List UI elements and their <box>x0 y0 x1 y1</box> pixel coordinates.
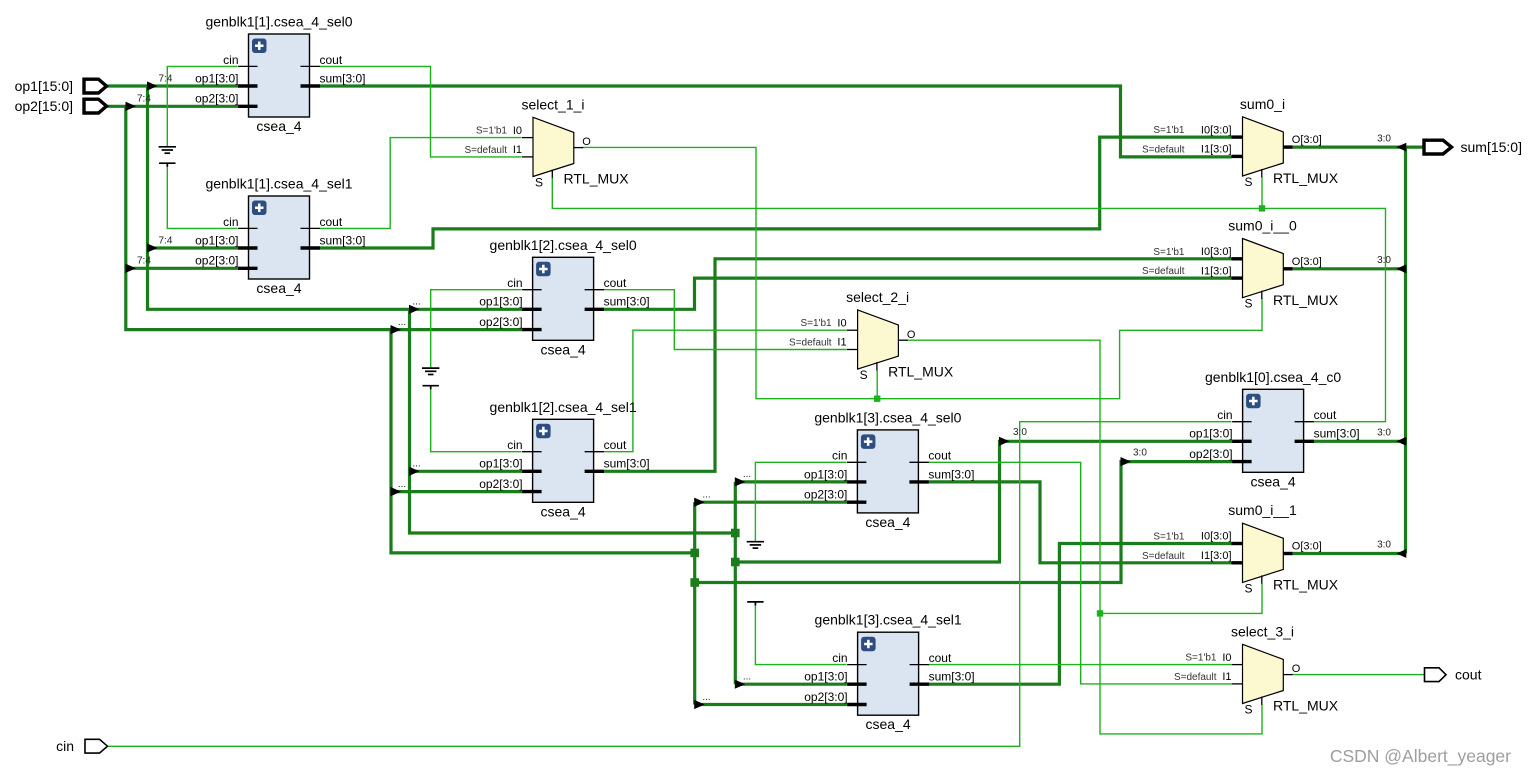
wire genblk1[0].csea_4_c0 sum to sum bus <box>1314 440 1405 443</box>
wire genblk1[1].csea_4_sel0 cout to select_1_i I1 <box>320 66 522 156</box>
branch arrow op2 to sel0[2] <box>391 325 402 334</box>
svg-text:7:4: 7:4 <box>137 94 151 105</box>
svg-text:op1[3:0]: op1[3:0] <box>195 71 238 85</box>
mux select_1_i <box>464 96 629 189</box>
svg-text:cin: cin <box>507 438 522 452</box>
svg-text:cin: cin <box>1217 408 1232 422</box>
adder block genblk1[1].csea_4_sel1 <box>195 176 365 297</box>
svg-text:O[3:0]: O[3:0] <box>1292 541 1322 553</box>
adder block genblk1[3].csea_4_sel0 <box>804 409 974 530</box>
branch arrow op1 to sel0[2] <box>409 305 420 314</box>
branch arrow op2 to sel0[3] <box>694 498 705 507</box>
wire genblk1[3].csea_4_sel1 sum to sum0_i__1 I0 <box>929 544 1232 685</box>
mux sum0_i__1 <box>1142 502 1339 595</box>
adder block genblk1[1].csea_4_sel0 <box>195 14 365 135</box>
branch arrow op2 to sel1[1] with label 7:4 <box>126 264 137 273</box>
svg-text:RTL_MUX: RTL_MUX <box>1273 292 1339 308</box>
svg-text:genblk1[1].csea_4_sel1: genblk1[1].csea_4_sel1 <box>205 176 352 192</box>
svg-text:op1[3:0]: op1[3:0] <box>804 467 847 481</box>
adder block genblk1[2].csea_4_sel0 <box>479 237 649 357</box>
wire genblk1[2].csea_4_sel1 sum to sum0_i__0 I0 <box>604 259 1231 472</box>
svg-text:cout: cout <box>604 276 627 290</box>
svg-text:S=1'b1: S=1'b1 <box>1153 247 1185 258</box>
svg-text:S=1'b1: S=1'b1 <box>1153 125 1185 136</box>
wire genblk1[1].csea_4_sel1 sum to sum0_i I0 <box>320 137 1232 248</box>
branch arrow op1 to sel0[1] with label 7:4 <box>147 81 158 90</box>
wire genblk1[3].csea_4_sel0 cin to ground <box>755 462 846 541</box>
svg-text:op2[3:0]: op2[3:0] <box>804 488 847 502</box>
svg-text:csea_4: csea_4 <box>1251 473 1296 489</box>
wire op2 vertical x=694.7 (blocks genblk1[3]) <box>693 502 696 704</box>
svg-text:select_1_i: select_1_i <box>521 96 584 112</box>
svg-text:RTL_MUX: RTL_MUX <box>1273 698 1339 714</box>
svg-text:RTL_MUX: RTL_MUX <box>888 363 954 379</box>
svg-text:...: ... <box>743 469 751 480</box>
wire op2 trunk x=391 down to y=552.9 <box>391 330 695 553</box>
wire op2 branch to genblk1[3].csea_4_sel0 <box>695 501 847 504</box>
svg-text:csea_4: csea_4 <box>541 341 586 357</box>
svg-text:op2[3:0]: op2[3:0] <box>804 690 847 704</box>
branch arrow op1 to sel1[2] <box>409 467 420 476</box>
svg-text:S: S <box>1245 175 1253 189</box>
svg-text:S=1'b1: S=1'b1 <box>476 126 508 137</box>
svg-text:op1[3:0]: op1[3:0] <box>479 295 522 309</box>
ground symbol G1 <box>159 147 176 153</box>
svg-text:csea_4: csea_4 <box>866 716 911 732</box>
svg-text:CSDN @Albert_yeager: CSDN @Albert_yeager <box>1330 746 1511 767</box>
wire sum0_i O to sum[15:0] port <box>1293 146 1424 149</box>
wire genblk1[3].csea_4_sel1 cout to select_3_i I0 <box>929 664 1231 666</box>
wire op2 branch to genblk1[1].csea_4_sel1 <box>126 267 238 270</box>
svg-text:sum[15:0]: sum[15:0] <box>1461 139 1522 155</box>
svg-text:3:0: 3:0 <box>1377 428 1391 439</box>
svg-text:S=1'b1: S=1'b1 <box>800 318 832 329</box>
svg-text:O: O <box>582 136 591 148</box>
mux select_2_i <box>789 289 954 382</box>
merge arrow sum0_i__1 O with label 3:0 <box>1396 549 1406 558</box>
svg-text:cin: cin <box>56 738 74 754</box>
svg-text:sum[3:0]: sum[3:0] <box>929 670 975 684</box>
svg-text:...: ... <box>398 479 406 490</box>
wire op2 branch to genblk1[2].csea_4_sel1 <box>391 490 522 493</box>
branch arrow op1 to c0 with label 3:0 <box>999 437 1010 446</box>
svg-text:S=default: S=default <box>464 145 507 156</box>
svg-text:genblk1[3].csea_4_sel0: genblk1[3].csea_4_sel0 <box>814 409 961 425</box>
output port cout <box>1425 667 1482 683</box>
wire genblk1[3].csea_4_sel0 cout to select_3_i I1 <box>929 462 1231 684</box>
junction op1 bus at x=735.3 y=562 <box>731 558 740 567</box>
svg-text:op1[3:0]: op1[3:0] <box>804 670 847 684</box>
wire op1 trunk x=409.5 down to y=533 <box>410 309 736 533</box>
wire op1 branch to genblk1[2].csea_4_sel1 <box>410 470 523 473</box>
svg-text:sum[3:0]: sum[3:0] <box>1314 427 1360 441</box>
ground symbol G3 <box>747 542 764 548</box>
svg-text:...: ... <box>743 672 751 683</box>
wire power to genblk1[1].csea_4_sel1 cin <box>167 164 237 229</box>
svg-text:I0[3:0]: I0[3:0] <box>1201 246 1232 258</box>
svg-text:I1: I1 <box>513 144 522 156</box>
svg-text:...: ... <box>412 459 420 470</box>
svg-text:...: ... <box>702 692 710 703</box>
svg-text:S=default: S=default <box>1142 551 1185 562</box>
svg-text:sum[3:0]: sum[3:0] <box>320 233 366 247</box>
svg-text:S=default: S=default <box>1142 144 1185 155</box>
svg-text:7:4: 7:4 <box>137 256 151 267</box>
wire power to genblk1[3].csea_4_sel1 cin <box>755 603 846 665</box>
svg-text:op1[3:0]: op1[3:0] <box>195 233 238 247</box>
junction op2 bus at x=694.7 y=582.5 <box>690 578 699 587</box>
adder block genblk1[3].csea_4_sel1 <box>804 612 974 733</box>
svg-text:O[3:0]: O[3:0] <box>1292 256 1322 268</box>
wire genblk1[3].csea_4_sel0 sum to sum0_i__1 I1 <box>929 482 1232 563</box>
svg-text:op2[3:0]: op2[3:0] <box>1189 447 1232 461</box>
input port op1[15:0] <box>15 78 107 94</box>
svg-text:O[3:0]: O[3:0] <box>1292 134 1322 146</box>
svg-text:cin: cin <box>223 215 238 229</box>
wire op2 branch to genblk1[3].csea_4_sel1 <box>695 703 847 706</box>
output port sum[15:0] <box>1424 139 1522 155</box>
svg-text:O: O <box>1292 663 1301 675</box>
svg-text:op2[15:0]: op2[15:0] <box>15 98 73 114</box>
wire genblk1[2].csea_4_sel0 cout to select_2_i I1 <box>604 290 846 350</box>
svg-text:S: S <box>1245 581 1253 595</box>
svg-text:cout: cout <box>320 53 343 67</box>
merge arrow sum0_i O with label 3:0 <box>1396 143 1406 152</box>
svg-text:csea_4: csea_4 <box>256 118 301 134</box>
svg-text:op2[3:0]: op2[3:0] <box>195 92 238 106</box>
svg-text:RTL_MUX: RTL_MUX <box>1273 170 1339 186</box>
wire op1[15:0] port to genblk1[1].csea_4_sel0 op1 <box>107 84 239 87</box>
svg-text:sum[3:0]: sum[3:0] <box>928 467 974 481</box>
svg-text:7:4: 7:4 <box>159 235 173 246</box>
svg-text:csea_4: csea_4 <box>865 514 910 530</box>
svg-text:genblk1[1].csea_4_sel0: genblk1[1].csea_4_sel0 <box>205 14 352 30</box>
svg-text:cin: cin <box>507 276 522 290</box>
branch arrow op2 to c0 with label 3:0 <box>1121 457 1132 466</box>
junction op1 bus at x=735.3 y=533 <box>731 529 740 538</box>
svg-text:3:0: 3:0 <box>1377 540 1391 551</box>
wire net carry0: genblk1[0].csea_4_c0 cout to select_1_i S and sum0_i S <box>552 177 1385 422</box>
wire branch carry2 to sum0_i__1 S <box>1100 583 1262 613</box>
svg-text:sum0_i__0: sum0_i__0 <box>1228 218 1297 234</box>
svg-text:op2[3:0]: op2[3:0] <box>479 315 522 329</box>
wire sum0_i__1 O to sum bus <box>1293 552 1406 555</box>
svg-text:select_2_i: select_2_i <box>846 289 909 305</box>
input port cin <box>56 738 107 754</box>
svg-text:sum0_i: sum0_i <box>1240 96 1285 112</box>
svg-text:S: S <box>1245 703 1253 717</box>
svg-text:genblk1[2].csea_4_sel1: genblk1[2].csea_4_sel1 <box>490 399 637 415</box>
svg-text:op1[3:0]: op1[3:0] <box>1189 427 1232 441</box>
junction carry2 branch <box>1097 610 1103 616</box>
wire genblk1[2].csea_4_sel0 cin to ground <box>431 290 522 368</box>
svg-text:sum0_i__1: sum0_i__1 <box>1228 502 1297 518</box>
svg-text:...: ... <box>398 317 406 328</box>
svg-text:cout: cout <box>1455 667 1482 683</box>
wire genblk1[1].csea_4_sel1 cout to select_1_i I0 <box>320 138 522 229</box>
merge arrow sum0_i__0 O with label 3:0 <box>1396 264 1406 273</box>
svg-text:S=1'b1: S=1'b1 <box>1153 532 1185 543</box>
mux sum0_i <box>1142 96 1339 189</box>
branch arrow op1 to sel1[3] <box>735 680 746 689</box>
wire op2 branch to genblk1[0].csea_4_c0 <box>695 462 1232 583</box>
svg-text:S=default: S=default <box>789 338 832 349</box>
branch arrow op2 to sel0[1] with label 7:4 <box>126 102 137 111</box>
svg-text:3:0: 3:0 <box>1377 133 1391 144</box>
junction carry0 at sum0_i S <box>1259 205 1265 211</box>
branch arrow op1 to sel0[3] <box>735 477 746 486</box>
svg-text:cout: cout <box>320 215 343 229</box>
merge arrow c0 sum with label 3:0 <box>1396 437 1406 446</box>
wire genblk1[1].csea_4_sel0 sum to sum0_i I1 <box>320 86 1232 157</box>
svg-text:S: S <box>860 368 868 382</box>
svg-text:S: S <box>535 176 543 190</box>
branch arrow op2 to sel1[2] <box>391 487 402 496</box>
wire op1 branch to genblk1[0].csea_4_c0 <box>735 441 1232 562</box>
svg-text:I0: I0 <box>837 317 846 329</box>
svg-text:cin: cin <box>832 651 847 665</box>
svg-text:...: ... <box>412 297 420 308</box>
svg-text:S=default: S=default <box>1142 266 1185 277</box>
power symbol P3 <box>747 602 763 606</box>
svg-text:I0[3:0]: I0[3:0] <box>1201 124 1232 136</box>
wire select_2_i S leg <box>876 370 878 399</box>
svg-text:cout: cout <box>929 651 952 665</box>
svg-text:cout: cout <box>604 438 627 452</box>
power symbol P1 <box>159 163 175 167</box>
wire sum0_i__0 O to sum bus <box>1293 267 1406 270</box>
svg-text:I1: I1 <box>837 337 846 349</box>
power symbol P2 <box>423 386 439 390</box>
wire power to genblk1[2].csea_4_sel1 cin <box>431 386 522 451</box>
svg-text:op1[3:0]: op1[3:0] <box>479 457 522 471</box>
svg-text:I1[3:0]: I1[3:0] <box>1201 265 1232 277</box>
wire net carry1: select_1_i O to select_2_i S and sum0_i__0 S <box>583 147 1263 398</box>
svg-text:I0[3:0]: I0[3:0] <box>1201 531 1232 543</box>
adder block genblk1[0].csea_4_c0 <box>1189 369 1359 490</box>
svg-text:3:0: 3:0 <box>1013 427 1027 438</box>
wire op2[15:0] port to genblk1[1].csea_4_sel0 op2 <box>107 105 239 108</box>
svg-text:op2[3:0]: op2[3:0] <box>195 254 238 268</box>
ground symbol G2 <box>422 368 439 374</box>
svg-text:O: O <box>907 329 916 341</box>
wire sum[15:0] bus vertical x=1405.5 <box>1404 147 1407 553</box>
svg-text:op1[15:0]: op1[15:0] <box>15 78 73 94</box>
svg-text:select_3_i: select_3_i <box>1231 623 1294 639</box>
svg-text:sum[3:0]: sum[3:0] <box>320 71 366 85</box>
svg-text:cout: cout <box>1314 408 1337 422</box>
svg-text:S: S <box>1245 297 1253 311</box>
junction carry1 at select_2_i S <box>874 396 880 402</box>
svg-text:S=1'b1: S=1'b1 <box>1185 653 1217 664</box>
wire genblk1[2].csea_4_sel1 cout to select_2_i I0 <box>604 330 846 452</box>
branch arrow op2 to sel1[3] <box>694 700 705 709</box>
svg-text:I1[3:0]: I1[3:0] <box>1201 144 1232 156</box>
svg-text:RTL_MUX: RTL_MUX <box>564 171 630 187</box>
svg-text:genblk1[2].csea_4_sel0: genblk1[2].csea_4_sel0 <box>490 237 637 253</box>
svg-text:csea_4: csea_4 <box>541 503 586 519</box>
wire select_3_i O to cout port <box>1293 674 1425 676</box>
wire op2 bus vertical trunk x=125.8 <box>126 106 522 329</box>
mux sum0_i__0 <box>1142 218 1339 311</box>
svg-text:I0: I0 <box>1222 652 1231 664</box>
wire op1 branch to genblk1[3].csea_4_sel1 <box>735 683 847 686</box>
svg-text:cin: cin <box>223 53 238 67</box>
adder block genblk1[2].csea_4_sel1 <box>479 399 649 520</box>
svg-text:RTL_MUX: RTL_MUX <box>1273 577 1339 593</box>
wire op1 branch to genblk1[3].csea_4_sel0 <box>735 480 847 483</box>
svg-text:sum[3:0]: sum[3:0] <box>604 295 650 309</box>
svg-text:genblk1[3].csea_4_sel1: genblk1[3].csea_4_sel1 <box>815 612 962 628</box>
svg-text:sum[3:0]: sum[3:0] <box>604 457 650 471</box>
svg-text:I0: I0 <box>513 125 522 137</box>
wire op1 branch to genblk1[1].csea_4_sel1 <box>148 246 239 249</box>
wire cin port to genblk1[0].csea_4_c0 cin <box>107 422 1232 747</box>
svg-text:3:0: 3:0 <box>1377 255 1391 266</box>
wire sum0_i S leg <box>1261 177 1263 208</box>
svg-text:cin: cin <box>832 449 847 463</box>
svg-text:csea_4: csea_4 <box>256 280 301 296</box>
wire genblk1[2].csea_4_sel0 sum to sum0_i__0 I1 <box>604 278 1231 309</box>
svg-text:3:0: 3:0 <box>1133 448 1147 459</box>
mux select_3_i <box>1174 623 1339 716</box>
svg-text:S=default: S=default <box>1174 672 1217 683</box>
wire net carry2: select_2_i O to select_3_i S and sum0_i__1 S <box>908 340 1262 734</box>
svg-text:op2[3:0]: op2[3:0] <box>479 477 522 491</box>
svg-text:cout: cout <box>928 449 951 463</box>
svg-text:genblk1[0].csea_4_c0: genblk1[0].csea_4_c0 <box>1205 369 1341 385</box>
wire op1 vertical x=735.3 (blocks genblk1[3]) <box>734 482 737 684</box>
svg-text:...: ... <box>702 490 710 501</box>
junction op2 bus at x=694.7 y=552.9 <box>690 549 699 558</box>
input port op2[15:0] <box>15 98 107 114</box>
svg-text:I1[3:0]: I1[3:0] <box>1201 550 1232 562</box>
wire op1 bus vertical trunk x=147.5 <box>148 86 523 309</box>
svg-text:I1: I1 <box>1222 671 1231 683</box>
wire genblk1[1].csea_4_sel0 cin to ground <box>167 66 237 146</box>
branch arrow op1 to sel1[1] with label 7:4 <box>147 243 158 252</box>
svg-text:7:4: 7:4 <box>159 73 173 84</box>
